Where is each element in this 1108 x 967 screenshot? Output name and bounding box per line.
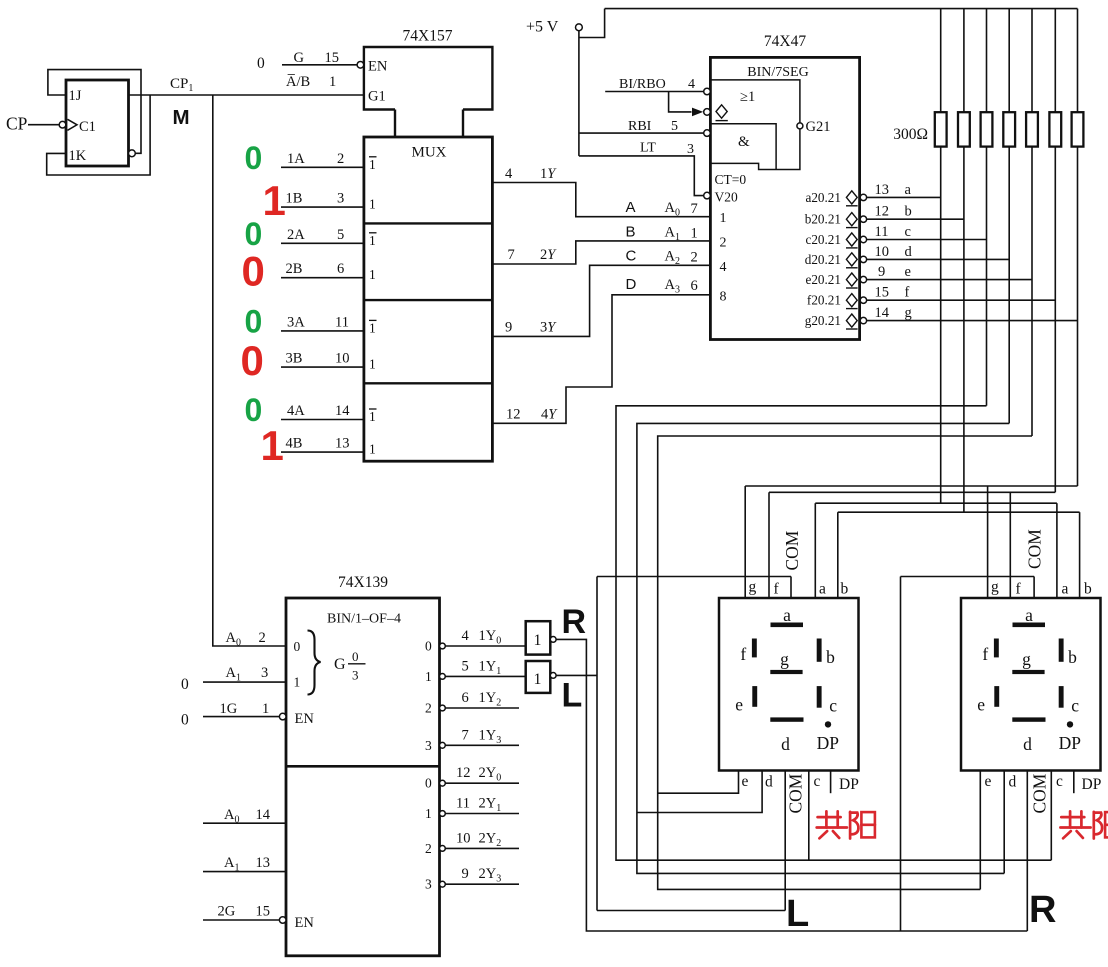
- wire input 1B pin 3: [281, 206, 364, 208]
- bubble output c: [860, 236, 866, 242]
- svg-text:2: 2: [720, 236, 727, 251]
- svg-text:7: 7: [691, 201, 698, 217]
- wire A1 input (pin 3): [203, 681, 286, 683]
- svg-text:1: 1: [263, 177, 286, 224]
- svg-text:b: b: [826, 647, 835, 667]
- bubble output e: [860, 276, 866, 282]
- wire output 1Y3: [445, 744, 519, 746]
- wire J feedback loop (Qbar to 1J): [48, 70, 141, 154]
- svg-text:0: 0: [245, 140, 263, 176]
- svg-text:a: a: [1062, 581, 1069, 598]
- 74X139 body: [286, 598, 440, 956]
- svg-text:10: 10: [335, 351, 350, 367]
- svg-text:d: d: [765, 774, 773, 791]
- wire 2G input (pin 15): [203, 919, 279, 921]
- wire net b horizontal: [838, 511, 1080, 513]
- wire BI/RBO pin 4: [605, 91, 703, 93]
- resistor R1 300ohm (a segment): [935, 112, 947, 146]
- 7-segment display body: [719, 598, 859, 771]
- svg-text:8: 8: [720, 290, 727, 305]
- bubble inverter U5 output: [550, 637, 556, 643]
- svg-text:3: 3: [352, 668, 359, 683]
- open-collector symbol output f: [846, 294, 857, 307]
- svg-text:BI/RBO: BI/RBO: [619, 77, 666, 92]
- svg-text:4B: 4B: [286, 436, 303, 452]
- brace for select inputs: [308, 631, 321, 695]
- wire output g to resistor column: [867, 320, 1078, 322]
- svg-text:2: 2: [259, 630, 266, 646]
- svg-text:b20.21: b20.21: [805, 212, 841, 227]
- label gongyang (common anode, right, red): [1060, 811, 1108, 838]
- svg-text:c: c: [814, 773, 821, 790]
- resistor R5 300ohm (e segment): [1026, 112, 1038, 146]
- wire column e from +5V rail: [1031, 9, 1033, 436]
- svg-text:d20.21: d20.21: [805, 252, 841, 267]
- svg-text:g: g: [905, 305, 912, 321]
- svg-text:e: e: [742, 773, 749, 790]
- svg-text:3: 3: [687, 142, 694, 157]
- svg-text:0: 0: [181, 712, 189, 729]
- wire input 4A pin 14: [281, 419, 364, 421]
- svg-text:COM: COM: [1025, 529, 1045, 569]
- svg-text:LT: LT: [640, 141, 656, 156]
- svg-text:0: 0: [425, 639, 432, 654]
- svg-text:4Y: 4Y: [541, 407, 558, 423]
- segment d bar: [1012, 717, 1045, 721]
- svg-text:L: L: [786, 893, 809, 935]
- svg-text:1: 1: [369, 357, 376, 372]
- wire output 1Y0: [445, 645, 525, 647]
- svg-text:11: 11: [456, 796, 470, 812]
- clock edge wedge: [68, 119, 78, 130]
- svg-text:e: e: [985, 773, 992, 790]
- wire net a horizontal: [815, 502, 1057, 504]
- wire output 2Y2: [445, 847, 519, 849]
- svg-text:13: 13: [875, 182, 890, 198]
- bubble output 2Y1: [440, 811, 446, 817]
- wire input 3B pin 10: [281, 366, 364, 368]
- svg-text:DP: DP: [1059, 733, 1082, 753]
- 7-segment display body: [961, 598, 1101, 771]
- wire left display DP stub: [830, 770, 832, 793]
- control block neck: [394, 110, 396, 138]
- segment d bar: [770, 717, 803, 721]
- bubble output 1Y2: [440, 705, 446, 711]
- wire L net bottom horizontal: [597, 910, 785, 912]
- svg-text:14: 14: [335, 403, 350, 419]
- segment a bar: [771, 623, 804, 628]
- wire left display c pin bottom: [808, 770, 810, 860]
- svg-text:1Y: 1Y: [540, 166, 557, 182]
- svg-text:COM: COM: [782, 530, 802, 570]
- wire K feedback loop (Q to 1K): [47, 95, 150, 175]
- svg-text:a: a: [1025, 605, 1033, 625]
- svg-text:f: f: [1016, 581, 1022, 598]
- wire Q output to CP1 net: [129, 94, 364, 96]
- open-collector symbol output c: [846, 233, 857, 246]
- svg-text:10: 10: [875, 244, 890, 260]
- svg-text:15: 15: [256, 904, 271, 920]
- svg-text:0: 0: [245, 216, 263, 252]
- svg-text:2: 2: [425, 701, 432, 716]
- wire RBI pin 5: [579, 132, 704, 134]
- svg-text:&: &: [738, 134, 750, 150]
- svg-text:M: M: [173, 106, 190, 129]
- svg-text:4: 4: [688, 77, 695, 92]
- svg-text:1: 1: [534, 671, 542, 688]
- svg-text:f: f: [905, 285, 910, 301]
- svg-text:COM: COM: [786, 773, 806, 813]
- svg-text:7: 7: [462, 727, 469, 743]
- wire input 1A pin 2: [281, 166, 364, 168]
- 74X47 body: [710, 57, 859, 339]
- svg-text:≥1: ≥1: [740, 89, 755, 105]
- wire output 1Y1: [445, 675, 525, 677]
- svg-text:11: 11: [335, 314, 349, 330]
- EN bubble: [357, 62, 364, 69]
- wire output c to resistor column: [867, 239, 987, 241]
- wire 1G input (pin 1): [203, 716, 279, 718]
- wire 1Y output to 74X47 A: [492, 183, 710, 217]
- wire net e (staircase to bottom e pins): [658, 436, 1032, 889]
- wire +5V jog to rail: [579, 9, 605, 38]
- svg-text:6: 6: [691, 278, 698, 294]
- wire right display a pin: [1056, 503, 1058, 598]
- open-collector symbol output a: [846, 191, 857, 204]
- svg-text:9: 9: [462, 866, 469, 882]
- open-collector symbol output g: [846, 314, 857, 327]
- svg-text:5: 5: [671, 119, 678, 134]
- svg-text:EN: EN: [368, 59, 388, 75]
- svg-text:c20.21: c20.21: [805, 232, 841, 247]
- wire right display b pin: [1079, 512, 1081, 598]
- resistor R3 300ohm (c segment): [981, 112, 993, 146]
- wire output 1Y2: [445, 707, 519, 709]
- wire left display e pin bottom: [658, 770, 739, 793]
- svg-text:d: d: [905, 244, 913, 260]
- wire COM top stub: [1033, 577, 1035, 599]
- svg-text:1: 1: [720, 211, 727, 226]
- svg-text:1B: 1B: [286, 191, 303, 207]
- bubble inverter U6 output: [550, 673, 556, 679]
- svg-text:b: b: [905, 204, 912, 220]
- svg-text:6: 6: [337, 261, 344, 277]
- wire R net: [556, 639, 1027, 931]
- svg-text:1: 1: [369, 197, 376, 212]
- svg-text:1: 1: [369, 320, 376, 335]
- svg-text:3Y: 3Y: [540, 320, 557, 336]
- svg-text:V20: V20: [715, 190, 738, 205]
- svg-text:0: 0: [241, 337, 264, 384]
- svg-text:c: c: [905, 224, 911, 240]
- svg-text:11: 11: [875, 224, 889, 240]
- svg-text:c: c: [1056, 773, 1063, 790]
- bubble output b: [860, 216, 866, 222]
- wire right display g pin: [987, 486, 989, 598]
- svg-text:CP: CP: [6, 114, 28, 134]
- wire output 2Y0: [445, 782, 519, 784]
- svg-text:13: 13: [335, 436, 350, 452]
- svg-text:1: 1: [329, 74, 336, 90]
- svg-text:4: 4: [462, 628, 470, 644]
- svg-text:DP: DP: [839, 776, 859, 793]
- svg-text:EN: EN: [295, 915, 315, 931]
- svg-text:G: G: [294, 50, 305, 66]
- wire 2Y output to 74X47 B: [492, 241, 710, 264]
- svg-text:1K: 1K: [69, 148, 87, 164]
- wire left display f pin: [768, 492, 770, 598]
- svg-text:f: f: [774, 581, 780, 598]
- svg-text:1: 1: [369, 233, 376, 248]
- svg-text:b: b: [1084, 581, 1092, 598]
- svg-text:C1: C1: [79, 119, 96, 135]
- 74X157 MUX body: [364, 137, 493, 461]
- svg-text:f: f: [740, 644, 746, 664]
- wire net f horizontal: [769, 491, 1055, 493]
- svg-text:DP: DP: [1082, 776, 1102, 793]
- svg-text:G1: G1: [368, 89, 386, 105]
- wire left display COM pin bottom: [784, 770, 786, 911]
- svg-text:12: 12: [456, 765, 471, 781]
- wire L net horizontal from inverter: [556, 674, 597, 676]
- svg-text:d: d: [1023, 734, 1032, 754]
- bubble output f: [860, 297, 866, 303]
- bubble BI/RBO: [704, 88, 711, 95]
- wire 3Y output to 74X47 C: [492, 265, 710, 336]
- resistor R7 300ohm (g segment): [1072, 112, 1084, 146]
- G enable wire: [282, 64, 357, 66]
- wire right display d pin bottom: [1003, 770, 1005, 873]
- svg-text:3A: 3A: [287, 314, 305, 330]
- svg-text:RBI: RBI: [628, 119, 652, 134]
- svg-text:G21: G21: [806, 119, 831, 135]
- wire COM top stub: [790, 577, 792, 599]
- inverter U5 box: [526, 621, 551, 654]
- svg-text:4: 4: [505, 166, 513, 182]
- svg-text:MUX: MUX: [411, 145, 446, 161]
- svg-text:3: 3: [261, 665, 268, 681]
- svg-text:g: g: [780, 649, 789, 669]
- open-collector symbol output e: [846, 273, 857, 286]
- section divider 1: [364, 222, 493, 224]
- svg-text:R: R: [1029, 889, 1056, 931]
- svg-text:0: 0: [245, 303, 263, 339]
- bubble output 2Y3: [440, 881, 446, 887]
- svg-text:2: 2: [425, 841, 432, 856]
- svg-text:1: 1: [691, 226, 698, 242]
- wire COM top cap: [597, 576, 791, 578]
- svg-text:14: 14: [875, 305, 890, 321]
- segment f bar: [994, 639, 999, 658]
- decimal point dot: [825, 721, 831, 727]
- svg-text:13: 13: [256, 855, 271, 871]
- bubble output 1Y3: [440, 742, 446, 748]
- G21 bubble: [797, 123, 803, 129]
- svg-text:1: 1: [534, 632, 542, 649]
- svg-text:2Y: 2Y: [540, 247, 557, 263]
- svg-text:14: 14: [256, 807, 271, 823]
- svg-text:7: 7: [508, 247, 515, 263]
- svg-text:1: 1: [369, 267, 376, 282]
- svg-text:2B: 2B: [286, 261, 303, 277]
- wire column b from +5V rail: [963, 9, 965, 513]
- svg-text:+5 V: +5 V: [526, 19, 559, 36]
- bubble 2G EN: [279, 917, 286, 924]
- svg-text:d: d: [781, 734, 790, 754]
- svg-text:L: L: [562, 677, 583, 715]
- bubble output 1Y1: [440, 674, 446, 680]
- svg-text:a: a: [819, 581, 826, 598]
- svg-text:BIN/1–OF–4: BIN/1–OF–4: [327, 612, 401, 627]
- svg-text:1: 1: [425, 806, 432, 821]
- svg-text:e20.21: e20.21: [805, 272, 841, 287]
- 74X139 half divider: [286, 765, 440, 768]
- wire column a from +5V rail: [940, 9, 942, 504]
- svg-text:15: 15: [875, 285, 890, 301]
- svg-text:1J: 1J: [69, 88, 82, 104]
- wire right display e pin bottom: [979, 770, 981, 889]
- svg-text:1G: 1G: [220, 701, 238, 717]
- segment g bar: [770, 670, 802, 674]
- wire output f to resistor column: [867, 299, 1056, 301]
- wire L net vertical: [596, 577, 598, 911]
- wire right display COM-top drop to R net: [900, 577, 902, 932]
- svg-text:b: b: [1068, 647, 1077, 667]
- svg-text:C: C: [626, 248, 637, 265]
- svg-text:A: A: [626, 199, 636, 216]
- resistor R4 300ohm (d segment): [1003, 112, 1015, 146]
- svg-text:R: R: [562, 603, 587, 641]
- wire input 3A pin 11: [281, 330, 364, 332]
- svg-text:0: 0: [425, 776, 432, 791]
- segment g bar: [1012, 670, 1044, 674]
- wire output 2Y3: [445, 883, 519, 885]
- wire left display a pin: [814, 503, 816, 598]
- svg-text:74X157: 74X157: [403, 28, 453, 45]
- svg-text:e: e: [905, 264, 911, 280]
- svg-text:1: 1: [294, 675, 301, 690]
- svg-text:a: a: [783, 605, 791, 625]
- resistor R2 300ohm (b segment): [958, 112, 970, 146]
- bubble output 2Y0: [440, 780, 446, 786]
- svg-text:9: 9: [505, 320, 512, 336]
- svg-text:15: 15: [325, 50, 340, 66]
- svg-text:0: 0: [352, 649, 359, 664]
- svg-text:0: 0: [294, 639, 301, 654]
- resistor R6 300ohm (f segment): [1049, 112, 1061, 146]
- wire output a to resistor column: [867, 196, 941, 198]
- svg-text:3: 3: [337, 191, 344, 207]
- wire right display c pin bottom: [1050, 770, 1052, 860]
- wire column c from +5V rail: [986, 9, 988, 406]
- wire output 2Y1: [445, 813, 519, 815]
- svg-text:B: B: [626, 224, 636, 241]
- segment a bar: [1013, 623, 1046, 628]
- bubble output d: [860, 256, 866, 262]
- wire output e to resistor column: [867, 279, 1032, 281]
- svg-text:74X139: 74X139: [338, 574, 388, 591]
- open-collector symbol output d: [846, 253, 857, 266]
- svg-text:1: 1: [369, 442, 376, 457]
- bubble RBI: [704, 130, 711, 137]
- wire COM top cap: [901, 576, 1035, 578]
- segment c bar: [1059, 686, 1064, 708]
- bubble output a: [860, 194, 866, 200]
- svg-text:g: g: [1022, 649, 1031, 669]
- svg-text:1: 1: [369, 157, 376, 172]
- JK flip-flop U4 body: [66, 80, 129, 166]
- decimal point dot: [1067, 721, 1073, 727]
- svg-text:3: 3: [425, 738, 432, 753]
- svg-text:4: 4: [720, 260, 727, 275]
- bubble LT/V20: [704, 192, 711, 199]
- wire column f from +5V rail: [1054, 9, 1056, 493]
- wire output b to resistor column: [867, 218, 964, 220]
- open-collector symbol at RBI arrow input: [716, 105, 727, 118]
- CP input wire: [28, 124, 59, 126]
- svg-text:EN: EN: [295, 711, 315, 727]
- wire A0 bottom (pin 14): [203, 822, 286, 824]
- segment f bar: [752, 639, 757, 658]
- wire right display COM pin bottom: [1026, 770, 1028, 931]
- svg-text:g20.21: g20.21: [805, 313, 841, 328]
- segment b bar: [1059, 639, 1064, 662]
- svg-text:2G: 2G: [218, 904, 236, 920]
- svg-text:0: 0: [257, 55, 265, 72]
- svg-text:e: e: [735, 694, 743, 714]
- svg-text:74X47: 74X47: [764, 33, 806, 50]
- wire +5V feed: [578, 31, 580, 156]
- wire A1 bottom (pin 13): [203, 871, 286, 873]
- svg-text:0: 0: [181, 676, 189, 693]
- svg-text:1: 1: [261, 422, 284, 469]
- svg-text:5: 5: [462, 658, 469, 674]
- wire left display g pin: [744, 486, 746, 598]
- svg-text:3B: 3B: [286, 351, 303, 367]
- svg-text:12: 12: [875, 204, 890, 220]
- svg-text:e: e: [977, 694, 985, 714]
- wire 4Y output to 74X47 D: [492, 295, 710, 424]
- svg-text:1: 1: [262, 701, 269, 717]
- wire input 4B pin 13: [281, 451, 364, 453]
- svg-text:D: D: [626, 276, 637, 293]
- wire right display f pin: [1009, 492, 1011, 598]
- svg-text:2A: 2A: [287, 227, 305, 243]
- 74X157 common control block: [364, 47, 493, 110]
- bubble output 2Y2: [440, 846, 446, 852]
- svg-text:1: 1: [425, 669, 432, 684]
- open-collector symbol output b: [846, 213, 857, 226]
- bubble output g: [860, 317, 866, 323]
- svg-text:BIN/7SEG: BIN/7SEG: [747, 65, 808, 80]
- svg-text:b: b: [841, 581, 849, 598]
- wire left display d pin bottom: [637, 770, 762, 813]
- wire +5V top rail: [605, 8, 1078, 10]
- wire net d (staircase to bottom d pins): [637, 423, 1009, 873]
- svg-text:3: 3: [425, 877, 432, 892]
- wire left display b pin: [837, 512, 839, 598]
- svg-text:g: g: [991, 579, 999, 596]
- bubble output 1Y0: [440, 643, 446, 649]
- bubble 1G EN: [279, 713, 286, 720]
- svg-text:CT=0: CT=0: [715, 172, 747, 187]
- wire M vertical to 74X139 A0: [213, 95, 286, 646]
- wire net g horizontal: [745, 485, 1077, 487]
- wire RBO-to-RBI branch with arrow: [669, 92, 692, 112]
- clock inversion bubble: [59, 121, 66, 128]
- bubble arrow input: [704, 109, 711, 116]
- svg-text:d: d: [1009, 774, 1017, 791]
